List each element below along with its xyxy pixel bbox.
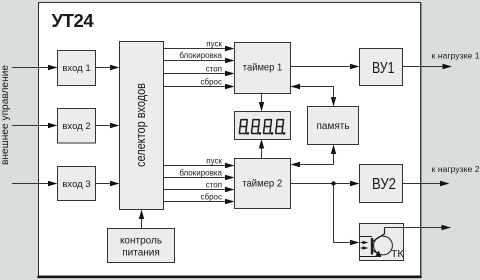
svg-text:внешнее управление: внешнее управление bbox=[0, 65, 11, 165]
wire селектор → таймер 2 : стоп bbox=[163, 180, 235, 192]
wire память ↔ таймер 2 bbox=[291, 145, 337, 168]
junction node таймер 2 output bbox=[331, 181, 335, 185]
wire external control → вход 3 bbox=[12, 181, 58, 186]
device boundary УТ24 bbox=[37, 3, 421, 278]
wire селектор → таймер 1 : блокировка bbox=[163, 51, 235, 63]
wire вход 1 → селектор входов bbox=[96, 65, 120, 70]
wire ТК → output bbox=[385, 225, 452, 230]
block таймер 2 bbox=[235, 159, 291, 209]
wire контроль питания → селектор bbox=[139, 210, 144, 229]
svg-text:стоп: стоп bbox=[206, 180, 222, 189]
wire junction → ТК bbox=[334, 184, 360, 246]
internal rails bbox=[360, 236, 373, 238]
svg-text:пуск: пуск bbox=[206, 156, 222, 165]
svg-text:сброс: сброс bbox=[201, 77, 222, 86]
wire external control → вход 2 bbox=[12, 123, 58, 128]
wire таймер 1 → индикатор bbox=[259, 94, 264, 112]
emitter with arrow bbox=[373, 250, 379, 254]
wire селектор → таймер 2 : блокировка bbox=[163, 168, 235, 180]
wire таймер 2 → индикатор bbox=[259, 139, 264, 159]
block вход 3 bbox=[58, 167, 96, 201]
wire external control → вход 1 bbox=[12, 65, 58, 70]
svg-text:блокировка: блокировка bbox=[179, 168, 222, 177]
block ВУ1 bbox=[360, 49, 403, 86]
svg-text:ВУ2: ВУ2 bbox=[372, 176, 396, 193]
wire селектор → таймер 1 : сброс bbox=[163, 77, 235, 89]
wire ВУ1 → к нагрузке 1 bbox=[403, 51, 480, 70]
wire ВУ2 → к нагрузке 2 bbox=[403, 164, 480, 186]
block таймер 1 bbox=[235, 43, 291, 94]
wire таймер 2 → ВУ2 bbox=[291, 181, 360, 186]
block контроль питания bbox=[108, 229, 175, 263]
svg-text:селектор входов: селектор входов bbox=[134, 83, 148, 167]
wire вход 3 → селектор входов bbox=[96, 181, 120, 186]
block вход 1 bbox=[58, 51, 96, 86]
block индикатор 8.8.8.8 bbox=[235, 112, 291, 140]
wire таймер 1 → ВУ1 bbox=[291, 64, 360, 69]
svg-text:ТК: ТК bbox=[391, 248, 404, 260]
block вход 2 bbox=[58, 109, 96, 144]
wire селектор → таймер 1 : пуск bbox=[163, 39, 235, 51]
svg-text:пуск: пуск bbox=[206, 39, 222, 48]
svg-text:память: память bbox=[316, 121, 349, 132]
svg-text:блокировка: блокировка bbox=[179, 51, 222, 60]
svg-text:вход 3: вход 3 bbox=[62, 179, 90, 190]
svg-text:к нагрузке 2: к нагрузке 2 bbox=[432, 164, 480, 174]
block селектор входов bbox=[120, 42, 164, 210]
svg-text:таймер 1: таймер 1 bbox=[243, 63, 283, 74]
light arrows bbox=[361, 242, 364, 244]
svg-text:к нагрузке 1: к нагрузке 1 bbox=[432, 51, 480, 61]
base bar bbox=[371, 238, 373, 255]
collector bbox=[373, 228, 385, 242]
wire вход 2 → селектор входов bbox=[96, 123, 120, 128]
transistor circle bbox=[374, 236, 393, 255]
svg-text:ВУ1: ВУ1 bbox=[372, 60, 395, 77]
wire таймер 1 ↔ память bbox=[291, 84, 337, 107]
svg-text:вход 1: вход 1 bbox=[62, 63, 90, 74]
block ВУ2 bbox=[360, 165, 403, 203]
svg-text:УТ24: УТ24 bbox=[52, 10, 95, 31]
wire селектор → таймер 2 : пуск bbox=[163, 156, 235, 168]
wire селектор → таймер 1 : стоп bbox=[163, 64, 235, 76]
svg-text:таймер 2: таймер 2 bbox=[242, 178, 282, 189]
block память bbox=[308, 107, 359, 145]
svg-text:контроль: контроль bbox=[120, 236, 162, 247]
svg-text:стоп: стоп bbox=[206, 64, 222, 73]
svg-text:вход 2: вход 2 bbox=[62, 121, 90, 132]
svg-text:сброс: сброс bbox=[201, 192, 222, 201]
svg-text:питания: питания bbox=[122, 248, 160, 259]
wire селектор → таймер 2 : сброс bbox=[163, 192, 235, 204]
block ТК (транзисторный ключ) bbox=[360, 224, 405, 261]
